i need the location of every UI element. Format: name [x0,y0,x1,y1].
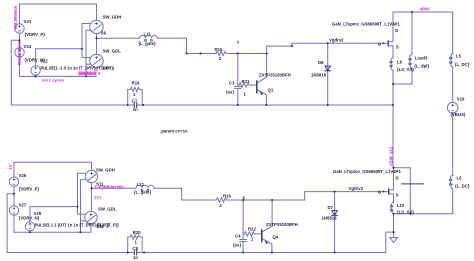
svg-text:L10: L10 [397,203,405,208]
svg-text:SW_GDL: SW_GDL [103,49,122,54]
svg-text:1.#QNB0e+000: 1.#QNB0e+000 [95,184,125,189]
svg-text:(VBUS): (VBUS) [451,112,466,117]
svg-text:GaN_LTspice_GS66508T_L1V4P1: GaN_LTspice_GS66508T_L1V4P1 [332,22,401,27]
svg-text:R22: R22 [248,227,256,232]
svg-text:V24: V24 [24,44,32,49]
svg-text:ZXTP25100BFH: ZXTP25100BFH [259,73,291,78]
svg-text:1N5818: 1N5818 [322,216,338,221]
svg-text:399.9999: 399.9999 [79,71,97,76]
svg-text:V26: V26 [19,173,27,178]
svg-text:ZXTP25100BFH: ZXTP25100BFH [266,222,298,227]
svg-text:V22: V22 [40,59,48,64]
svg-text:SW_GDH: SW_GDH [103,15,122,20]
svg-text:Q1: Q1 [268,88,274,93]
svg-text:V: V [98,71,101,76]
svg-text:(VDRV_N): (VDRV_N) [19,216,40,221]
svg-text:Load3: Load3 [415,56,428,61]
svg-text:Vgdrv3: Vgdrv3 [349,186,364,191]
svg-text:{LS_XX}: {LS_XX} [397,67,414,72]
svg-text:Vgdrv2: Vgdrv2 [329,38,344,43]
svg-text:{L_gate}: {L_gate} [139,41,157,46]
svg-text:C8: C8 [133,246,139,251]
svg-text:-999.9999mV: -999.9999mV [17,41,22,67]
svg-text:VSW_xx2: VSW_xx2 [389,146,394,166]
svg-text:S: S [396,45,399,50]
svg-text:L12: L12 [137,182,145,187]
svg-text:S9: S9 [101,31,107,36]
svg-text:400V: 400V [420,7,430,12]
svg-text:S: S [396,193,399,198]
svg-text:1V: 1V [8,164,13,169]
svg-text:L9: L9 [397,60,403,65]
svg-text:V23: V23 [24,19,32,24]
svg-text:999.9999mV: 999.9999mV [13,5,18,29]
svg-text:V27: V27 [19,203,27,208]
svg-text:V19: V19 [457,97,465,102]
svg-text:{L_gate}: {L_gate} [134,190,152,195]
svg-text:C7: C7 [132,99,138,104]
svg-text:(VDRV_P): (VDRV_P) [19,187,40,192]
svg-text:del 2 cycles: del 2 cycles [42,77,65,82]
svg-text:D: D [395,28,398,33]
svg-text:GaN_LTspice_GS66508T_L1V4P1: GaN_LTspice_GS66508T_L1V4P1 [333,169,402,174]
svg-text:S10: S10 [101,65,109,70]
svg-text:S12: S12 [97,223,105,228]
svg-text:???: ??? [94,195,102,200]
svg-text:{VDRV_P}: {VDRV_P} [25,32,46,37]
svg-text:1n: 1n [133,255,138,260]
svg-text:Q4: Q4 [273,235,279,240]
svg-text:C4: C4 [235,234,241,239]
svg-text:R19: R19 [132,81,140,86]
svg-text:D7: D7 [328,205,334,210]
svg-text:{L_DC}: {L_DC} [455,62,470,67]
svg-text:{LS_XX}: {LS_XX} [397,209,414,214]
svg-text:C3: C3 [229,81,235,86]
svg-text:R15: R15 [215,47,223,52]
svg-text:D: D [396,176,399,181]
svg-text:1n: 1n [133,107,138,112]
svg-text:SW_GDL: SW_GDL [98,207,117,212]
svg-text:.param cc=1n: .param cc=1n [160,129,188,134]
svg-text:R21: R21 [242,79,250,84]
svg-text:R20: R20 [133,230,141,235]
svg-text:{ss}: {ss} [226,90,234,95]
svg-text:R16: R16 [223,194,231,199]
svg-text:{L_DC}: {L_DC} [455,184,470,189]
svg-text:SW_GDH: SW_GDH [96,167,115,172]
svg-text:L5: L5 [456,54,462,59]
svg-text:L11: L11 [144,32,152,37]
svg-text:1N5818: 1N5818 [311,73,327,78]
svg-text:L6: L6 [457,176,463,181]
svg-text:{T_P}): {T_P}) [107,223,120,228]
svg-text:{ss}: {ss} [233,243,241,248]
svg-text:D8: D8 [318,60,324,65]
svg-text:{L_dpl}: {L_dpl} [414,64,429,69]
